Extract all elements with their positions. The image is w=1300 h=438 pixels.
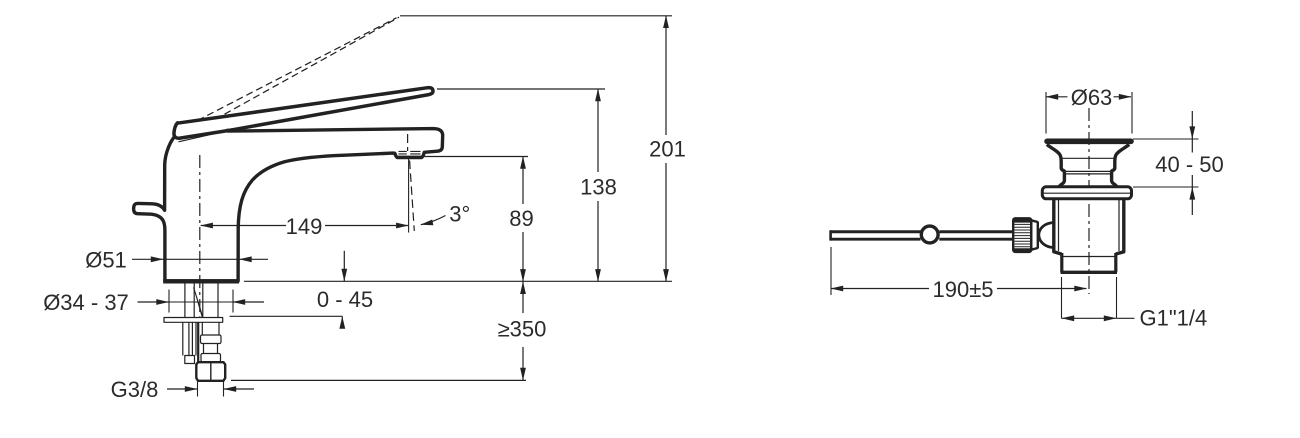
drain disc middle line [1043, 192, 1132, 194]
drain collar trapezoid [1031, 220, 1038, 250]
dimension D63 right arrow [1114, 96, 1132, 98]
knurled nut bottom band [1014, 248, 1032, 252]
spout outlet tilted axis dashed [410, 161, 415, 232]
pull rod left end cap [829, 230, 832, 240]
svg-text:G3/8: G3/8 [111, 377, 159, 402]
drain knurled nut body [1013, 218, 1031, 252]
drain body right wall [1116, 199, 1124, 254]
dimension D34-37 left tick [168, 290, 170, 313]
svg-text:40 - 50: 40 - 50 [1155, 152, 1224, 177]
extension line plate top (0-45) [230, 315, 343, 317]
handle seam thin line lower [179, 131, 227, 142]
dimension 40-50 lower stub [1191, 175, 1193, 187]
supply hose middle [204, 344, 218, 354]
dimension 0-45 upper arrow [343, 251, 345, 281]
dimension 190 extension left [830, 247, 832, 295]
drain funnel left side [1047, 145, 1065, 188]
dimension D34-37 left arrow [138, 301, 169, 303]
drain tail pipe [1062, 253, 1116, 272]
svg-text:138: 138 [580, 175, 617, 200]
mounting plate [164, 318, 223, 323]
hex nut facet line [210, 362, 212, 381]
hose ferrule 2 [201, 354, 221, 362]
svg-text:190±5: 190±5 [932, 277, 993, 302]
faucet body and spout outline [134, 129, 443, 281]
extension line top (201) [400, 15, 672, 17]
dimension G1 line [1062, 317, 1116, 319]
svg-text:G1"1/4: G1"1/4 [1140, 305, 1208, 330]
svg-text:Ø34 - 37: Ø34 - 37 [43, 290, 129, 315]
drain disc flange [1042, 187, 1131, 199]
spout outlet axis dash-dot upper [407, 134, 409, 151]
leader 3 degrees [421, 216, 446, 225]
dimension G1 stub [1117, 317, 1135, 319]
hex nut G3/8 [196, 362, 225, 381]
svg-text:Ø63: Ø63 [1071, 85, 1113, 110]
dimension 190 right line [997, 288, 1087, 290]
svg-text:3°: 3° [449, 201, 470, 226]
svg-text:149: 149 [286, 214, 323, 239]
handle lever [174, 88, 433, 139]
drain funnel right side [1112, 145, 1130, 188]
extension line aerator (89) [424, 156, 528, 158]
dimension D34-37 right tick [232, 290, 234, 313]
drain flange rim [1047, 139, 1131, 145]
svg-text:0 - 45: 0 - 45 [317, 287, 373, 312]
shank thread hatch [194, 287, 203, 316]
reference baseline counter top [244, 280, 672, 282]
dimension D63 extension right [1131, 92, 1133, 134]
drain pull rod dark line [197, 322, 199, 362]
dimension D63 left arrow [1046, 96, 1068, 98]
drain body inner walls [1059, 199, 1120, 251]
dimension D63 extension left [1045, 92, 1047, 134]
pull rod top line [831, 230, 1014, 233]
dimension G3/8 right tick [223, 382, 225, 397]
dimension 149 line left [201, 225, 286, 227]
aerator hatch lines [398, 151, 421, 156]
spout outlet vertical extension line [408, 157, 410, 233]
dimension D34-37 cross line [169, 301, 234, 303]
dimension 40-50 extension upper [1133, 138, 1199, 140]
dimension 190 left line [831, 288, 929, 290]
svg-text:89: 89 [509, 206, 533, 231]
dimension G1 extension right [1116, 277, 1118, 319]
dimension 89 line lower [522, 232, 524, 281]
dimension 89 line upper [522, 157, 524, 205]
dimension G3/8 left tick [197, 382, 199, 397]
supply hose upper [202, 322, 219, 335]
dimension 201 line lower [665, 163, 667, 281]
dimension 138 line lower [597, 201, 599, 281]
dimension 201 line upper [665, 16, 667, 135]
hose ferrule 1 [201, 335, 222, 344]
dimension 0-45 lower arrow [341, 317, 343, 328]
dimension G1 extension left [1061, 277, 1063, 319]
dimension 40-50 extension lower [1133, 186, 1199, 188]
drain tail thread line [1062, 256, 1116, 258]
dimension ge350 upper arrow [522, 282, 524, 313]
drain tail pipe bottom [1061, 271, 1118, 274]
dimension 149 line right [325, 225, 408, 227]
drain centerline dash-dot [1088, 108, 1090, 294]
rod ball joint [921, 226, 938, 243]
dashed raised handle position line lower [198, 18, 397, 121]
faucet body centerline dash-dot [199, 155, 201, 317]
svg-text:201: 201 [649, 137, 686, 162]
drain side boss [1039, 223, 1054, 248]
svg-text:Ø51: Ø51 [85, 247, 127, 272]
dimension ge350 lower arrow [522, 347, 524, 380]
dimension D51 left arrow [132, 258, 163, 260]
drain funnel band lines [1062, 158, 1115, 174]
dimension 40-50 upper stub [1191, 139, 1193, 153]
handle seam thin line upper [178, 131, 227, 139]
stud nut [185, 356, 195, 364]
extension line handle tip (138) [437, 88, 605, 90]
knurled nut top band [1014, 219, 1032, 223]
dimension G3/8 left arrow [167, 388, 197, 390]
dimension 138 line upper [597, 89, 599, 172]
faucet base bottom bold line [163, 279, 239, 283]
dimension D51 cross line [163, 258, 240, 260]
mounting stud lines [183, 322, 196, 355]
dimension 40-50 lower line [1191, 187, 1193, 215]
handle seam thin line right [227, 129, 261, 131]
dimension G3/8 right arrow [224, 388, 254, 390]
knurl lines [1014, 224, 1030, 246]
dashed raised handle position line upper [225, 17, 400, 114]
drain body left wall [1054, 199, 1062, 254]
reference line bottom (ge350) [231, 379, 526, 381]
svg-text:≥350: ≥350 [498, 317, 547, 342]
supply pipe vertical lines [185, 284, 218, 318]
dimension D34-37 right arrow [233, 301, 264, 303]
dimension 40-50 upper line [1191, 111, 1193, 139]
dimension D51 right arrow [240, 258, 269, 260]
pull rod bottom line [831, 238, 1014, 241]
